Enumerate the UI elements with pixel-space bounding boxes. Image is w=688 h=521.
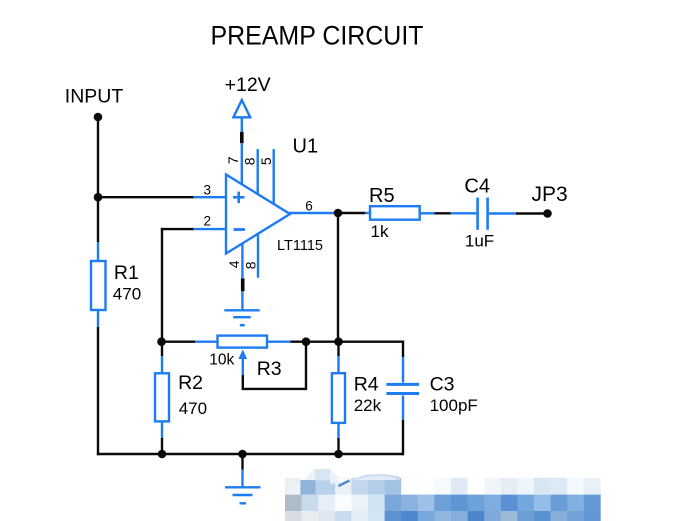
svg-text:LT1115: LT1115 [277, 238, 323, 254]
svg-text:R4: R4 [354, 373, 379, 395]
svg-text:C4: C4 [464, 176, 490, 198]
svg-text:2: 2 [204, 213, 212, 228]
svg-text:R3: R3 [257, 358, 282, 380]
svg-text:+12V: +12V [225, 74, 271, 96]
svg-text:4: 4 [226, 260, 242, 268]
svg-text:470: 470 [113, 284, 141, 303]
svg-text:JP3: JP3 [532, 183, 568, 206]
svg-text:R1: R1 [114, 262, 139, 284]
svg-text:U1: U1 [293, 135, 319, 157]
svg-text:7: 7 [225, 156, 241, 164]
svg-text:5: 5 [258, 157, 274, 165]
svg-text:100pF: 100pF [430, 396, 478, 415]
svg-text:10k: 10k [209, 352, 234, 369]
svg-text:3: 3 [204, 182, 212, 197]
svg-text:470: 470 [179, 399, 207, 418]
svg-text:22k: 22k [354, 396, 382, 415]
svg-text:8: 8 [242, 157, 258, 165]
svg-text:INPUT: INPUT [65, 86, 124, 108]
svg-text:1k: 1k [371, 222, 389, 241]
svg-text:6: 6 [305, 199, 313, 214]
svg-text:R2: R2 [178, 372, 203, 394]
svg-text:8: 8 [243, 261, 259, 269]
svg-text:1uF: 1uF [465, 232, 494, 251]
svg-text:PREAMP CIRCUIT: PREAMP CIRCUIT [211, 21, 424, 51]
svg-text:R5: R5 [369, 185, 395, 207]
svg-text:C3: C3 [430, 373, 455, 395]
